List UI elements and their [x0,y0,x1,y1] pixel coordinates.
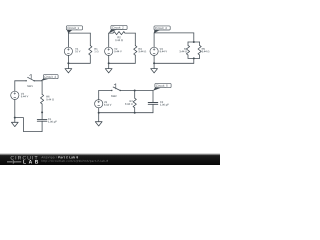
resistor R6 [41,94,44,104]
ground (circuit 3) [151,63,158,73]
wire: bottom of circuit 1 [68,62,90,64]
label R2 value [115,36,123,41]
voltage source V3 [150,47,158,55]
CircuitLab logo wordmark [7,156,38,164]
label V1 value [75,48,80,52]
label C1 value [48,118,57,123]
label SW2 [111,95,116,97]
wire: right upper (R3 top lead) [134,33,136,46]
wire: top-right segment circuit 2 [125,32,135,34]
wire: top-left segment circuit 2 [109,32,113,34]
node: junction dot circuit 3 bottom-left [153,62,155,64]
resistor R2 (horizontal, in top wire) [113,32,125,35]
voltage source V5 [95,100,103,108]
switch SW2 [111,84,121,91]
node: junction dot circuit 2 bottom-left [108,62,110,64]
wire: top of circuit 1 [68,32,90,34]
wire: left lower (V4 bottom lead) [14,99,16,117]
wire: bottom of circuit 5 [99,112,153,114]
node: junction dot circuit 4 bottom-left [14,117,16,119]
wire: left lower (V1 bottom lead) [67,55,69,63]
wire: R4 top lead [187,42,189,45]
wire: R7 top lead [134,91,136,99]
voltage source V4 [11,91,19,99]
wire: left upper (V4 top lead) [14,81,16,91]
footer title text [41,156,56,159]
wire: left upper (V1 top lead) [67,33,69,47]
label V5 value [104,101,111,105]
wire: R5 bottom lead [199,55,201,58]
label SW1 [27,85,32,87]
ground (circuit 1) [65,63,72,73]
resistor R4 [186,45,189,55]
resistor R5 [198,45,201,55]
wire: bank bottom rail [188,57,200,59]
wire: center drop to resistor bank top [193,33,195,42]
wire: top-right segment circuit 5 [120,90,153,92]
wire: left upper (V3 top lead) [153,33,155,47]
wire: right lower (R3 bottom lead) [134,55,136,63]
wire: bottom of circuit 3 [154,62,194,64]
footer bar [0,153,220,165]
wire: left lower (V2 bottom lead) [108,55,110,63]
node: junction dot R7 bottom [134,112,136,114]
node flag Circuit_4 [40,75,58,82]
node: junction dot circuit 5 bottom-left [98,112,100,114]
node: junction dot bank top [193,41,195,43]
capacitor C2 [148,103,158,105]
label V4 value [21,93,28,97]
node: wire joint dot on R6-C1 wire [41,111,43,113]
wire: top-left segment circuit 4 [15,80,26,82]
ground (circuit 5) [95,113,102,126]
footer url text [42,160,108,163]
wire: R6 bottom lead to C1 [41,104,43,120]
label R6 value [46,96,54,101]
label V2 value [114,48,121,52]
wire: R4 bottom lead [187,55,189,58]
resistor R3 [134,46,137,56]
label R4 value [179,48,187,52]
ground (circuit 4) [11,118,18,127]
label C2 value [160,101,169,106]
node flag Circuit_2 [109,25,128,33]
switch SW1 [26,74,35,81]
wire: bank bottom drop [193,58,195,63]
label V3 value [160,48,167,52]
wire: right lower (R1 bottom lead) [89,55,91,63]
resistor R1 [89,46,92,56]
wire: R7 bottom lead [134,108,136,113]
wire: R5 top lead [199,42,201,45]
wire: left lower (V5 bottom lead) [98,108,100,113]
wire: left lower (V3 bottom lead) [153,55,155,63]
wire: C1 bottom lead [41,121,43,131]
wire: left upper (V5 top lead) [98,91,100,100]
component value texts [21,36,210,123]
capacitor C1 [37,119,47,121]
voltage source V1 [64,47,72,55]
wire: C2 bottom lead [152,104,154,112]
wire: right upper (R1 top lead) [89,33,91,46]
node: junction dot circuit 1 bottom-left [67,62,69,64]
node flag Circuit_3 [154,26,170,33]
label R1 value [94,48,98,52]
wire: left upper (V2 top lead) [108,33,110,47]
wire: top of circuit 3 [154,32,194,34]
wire: bank top rail [188,41,200,43]
node flag Circuit_1 [66,26,82,34]
wire: C2 top lead (right drop) [152,91,154,103]
wire: bottom jog of circuit 4 [15,118,42,132]
label R5 value [202,48,210,52]
wire: top-left segment circuit 5 [99,90,112,92]
ground (circuit 2) [105,63,112,73]
named node flags [40,25,171,90]
wire: bottom of circuit 2 [109,62,136,64]
node flag Circuit_5 [153,83,171,90]
wire: top-right segment circuit 4 [34,80,42,82]
resistor R7 [133,98,136,108]
voltage source V2 [105,47,113,55]
wire: right drop to R6 [41,81,43,95]
node: junction dot bank bottom [193,57,195,59]
label R7 value [125,100,133,105]
label R3 value [138,48,146,52]
node: junction dot R7 top [134,90,136,92]
